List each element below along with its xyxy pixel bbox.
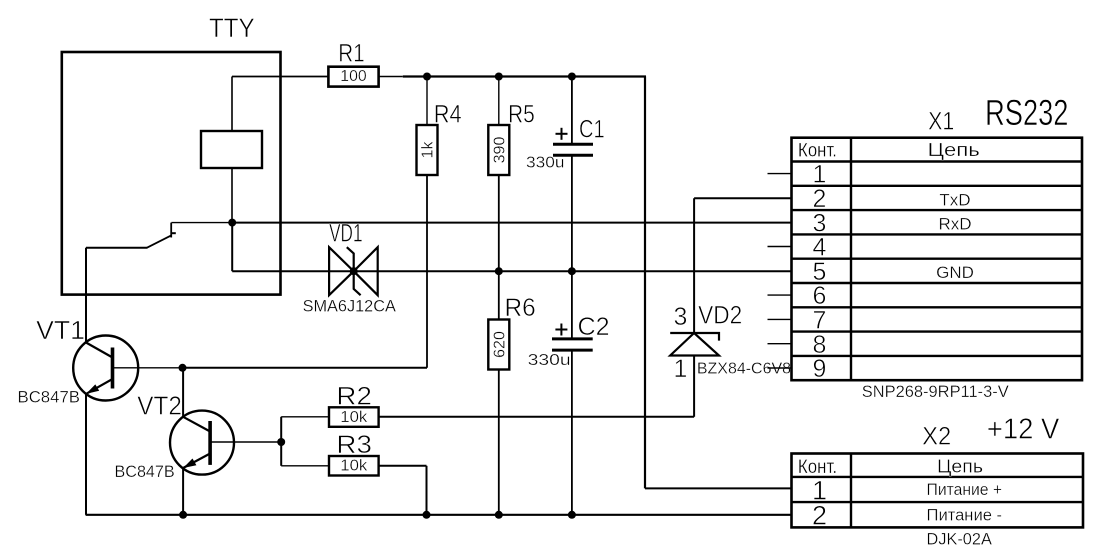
svg-text:VT1: VT1 (36, 315, 85, 345)
svg-text:Питание +: Питание + (927, 480, 1003, 499)
wire C1 bottom lead (571, 155, 573, 271)
wire R6 top lead (498, 271, 500, 319)
resistor R6 (488, 320, 509, 370)
wire coil bottom to node (231, 168, 233, 223)
svg-text:BC847B: BC847B (115, 462, 175, 481)
node dot R3 bottom (423, 511, 431, 519)
node dot R5 top (495, 73, 503, 81)
wire R3 left lead (281, 465, 329, 467)
wire R5 top lead (498, 77, 500, 126)
svg-text:TxD: TxD (939, 190, 970, 209)
svg-text:R1: R1 (338, 39, 364, 67)
VD1 center gate bar (347, 247, 361, 295)
svg-text:C2: C2 (578, 313, 610, 341)
svg-text:1: 1 (674, 355, 688, 383)
wire C2 top lead (571, 271, 573, 339)
wire C1 top lead (571, 77, 573, 145)
svg-text:330u: 330u (528, 352, 571, 369)
svg-text:3: 3 (674, 303, 688, 331)
wire top rail left segment (232, 76, 328, 78)
TVS diode VD1 right triangle (354, 247, 378, 295)
C1 plus sign (556, 133, 568, 135)
connector X2 table (792, 454, 1084, 528)
VT1 collector wire (85, 248, 87, 343)
svg-text:100: 100 (340, 68, 366, 85)
VT2 emitter wire (182, 468, 184, 515)
svg-text:BZX84-C6V8: BZX84-C6V8 (697, 360, 791, 377)
wire R2 left lead (281, 416, 329, 418)
resistor R1 (328, 67, 378, 87)
svg-text:620: 620 (492, 331, 509, 358)
VT1 emitter arrow (86, 384, 99, 394)
wire to X2 pin1 (645, 487, 792, 489)
wire GND to X1 pin5 (232, 270, 791, 272)
VT1 base wire (113, 367, 183, 369)
connector X1 table (792, 138, 1083, 381)
svg-text:VT2: VT2 (137, 390, 182, 420)
svg-text:R2: R2 (336, 383, 372, 411)
svg-text:VD2: VD2 (698, 302, 742, 330)
node dot R6 bottom (495, 511, 503, 519)
wire +12V vertical drop (644, 77, 646, 489)
node dot VT2 base (277, 438, 285, 446)
bottom rail wire (86, 514, 792, 516)
svg-text:BC847B: BC847B (18, 388, 81, 407)
resistor R4 (417, 125, 438, 175)
VT1 base bar (111, 348, 115, 389)
wire R3 to bottom rail (426, 466, 428, 515)
svg-text:1k: 1k (420, 141, 437, 159)
VT1 emitter diagonal (86, 379, 113, 394)
switch fixed contact (170, 223, 172, 238)
resistor R2 (329, 407, 379, 427)
wire VD2 anode riser (693, 356, 695, 417)
svg-text:C1: C1 (579, 116, 605, 144)
svg-text:Конт.: Конт. (798, 141, 837, 162)
wire C2 bottom lead (571, 350, 573, 515)
svg-text:10k: 10k (340, 458, 368, 475)
VD2 cathode bar (670, 333, 719, 341)
node dot TTY (228, 219, 236, 227)
svg-text:DJK-02A: DJK-02A (927, 530, 993, 549)
wire R5 bottom lead (498, 175, 500, 271)
node dot VT1 base (179, 364, 187, 372)
wire VD2 to X1 pin2 (694, 197, 791, 199)
node dot R6 top (495, 267, 503, 275)
capacitor C1 bottom plate (553, 154, 593, 157)
resistor R3 (329, 456, 379, 476)
VT2 base wire (210, 441, 281, 443)
svg-text:GND: GND (936, 263, 974, 282)
svg-text:+12 V: +12 V (987, 414, 1060, 446)
VT1 collector diagonal (86, 343, 113, 358)
wire R3 right lead (379, 465, 427, 467)
X1 pin stubs (768, 174, 792, 368)
svg-text:SMA6J12CA: SMA6J12CA (303, 296, 397, 315)
transistor VT1 circle (73, 336, 138, 401)
svg-text:R5: R5 (508, 101, 535, 129)
svg-text:2: 2 (812, 501, 827, 531)
node dot C2 top (568, 267, 576, 275)
node dot VT2 emitter (179, 511, 187, 519)
svg-text:TTY: TTY (209, 13, 255, 43)
zener diode VD2 cathode wire (693, 198, 695, 333)
svg-text:10k: 10k (340, 409, 368, 426)
svg-text:Цепь: Цепь (937, 457, 983, 477)
svg-text:RS232: RS232 (985, 92, 1068, 133)
capacitor C1 top plate (553, 143, 593, 146)
wire R1 to node R4 (379, 76, 403, 78)
switch pole wire (86, 247, 147, 249)
wire RxD left thin (171, 222, 232, 224)
svg-text:RxD: RxD (938, 215, 971, 234)
VT2 base bar (208, 421, 212, 465)
C2 plus sign (555, 329, 567, 331)
svg-text:SNP268-9RP11-3-V: SNP268-9RP11-3-V (862, 382, 1010, 401)
svg-text:X2: X2 (922, 422, 951, 450)
wire node down (231, 223, 233, 272)
svg-text:Цепь: Цепь (928, 140, 980, 160)
VT2 emitter arrow (183, 459, 196, 469)
capacitor C2 top plate (552, 337, 593, 340)
svg-text:X1: X1 (928, 107, 954, 135)
svg-text:9: 9 (813, 355, 827, 383)
node dot R4 top (423, 73, 431, 81)
switch lever (147, 235, 172, 248)
transistor VT2 circle (170, 411, 234, 475)
VT1 emitter wire (85, 394, 87, 515)
switch lever tip bar (171, 232, 176, 234)
VT2 emitter diagonal (183, 454, 210, 469)
resistor R5 (488, 125, 509, 175)
node dot VD1 (350, 267, 358, 275)
wire RxD to X1 pin3 (232, 222, 791, 224)
wire R2-R3 left connector (280, 417, 282, 466)
wire VT2 collector riser (182, 368, 184, 417)
wire R4 bottom long lead (426, 175, 428, 368)
node dot C1 top (568, 73, 576, 81)
svg-text:R4: R4 (434, 101, 462, 129)
wire top rail thick segment (403, 75, 646, 77)
wire R4 top lead (426, 77, 428, 126)
svg-text:330u: 330u (526, 155, 565, 172)
svg-text:R6: R6 (505, 294, 536, 322)
capacitor C2 bottom plate (552, 349, 593, 352)
svg-text:R3: R3 (336, 431, 372, 459)
TTY block box (62, 52, 281, 295)
VD2 triangle (670, 333, 719, 356)
X1 pin numbers (813, 161, 827, 383)
svg-text:Питание -: Питание - (927, 505, 1003, 524)
TVS diode VD1 left triangle (329, 247, 354, 295)
wire coil top to top rail (231, 77, 233, 132)
TTY internal coil rectangle (201, 131, 262, 168)
wire R6 bottom lead (498, 370, 500, 515)
wire R4 to VT1 base node (183, 367, 428, 369)
svg-text:390: 390 (492, 137, 509, 164)
svg-text:VD1: VD1 (329, 220, 362, 248)
node dot C2 bottom (568, 511, 576, 519)
VT2 collector diagonal (183, 417, 210, 432)
wire R2 to VD2 (379, 416, 694, 418)
